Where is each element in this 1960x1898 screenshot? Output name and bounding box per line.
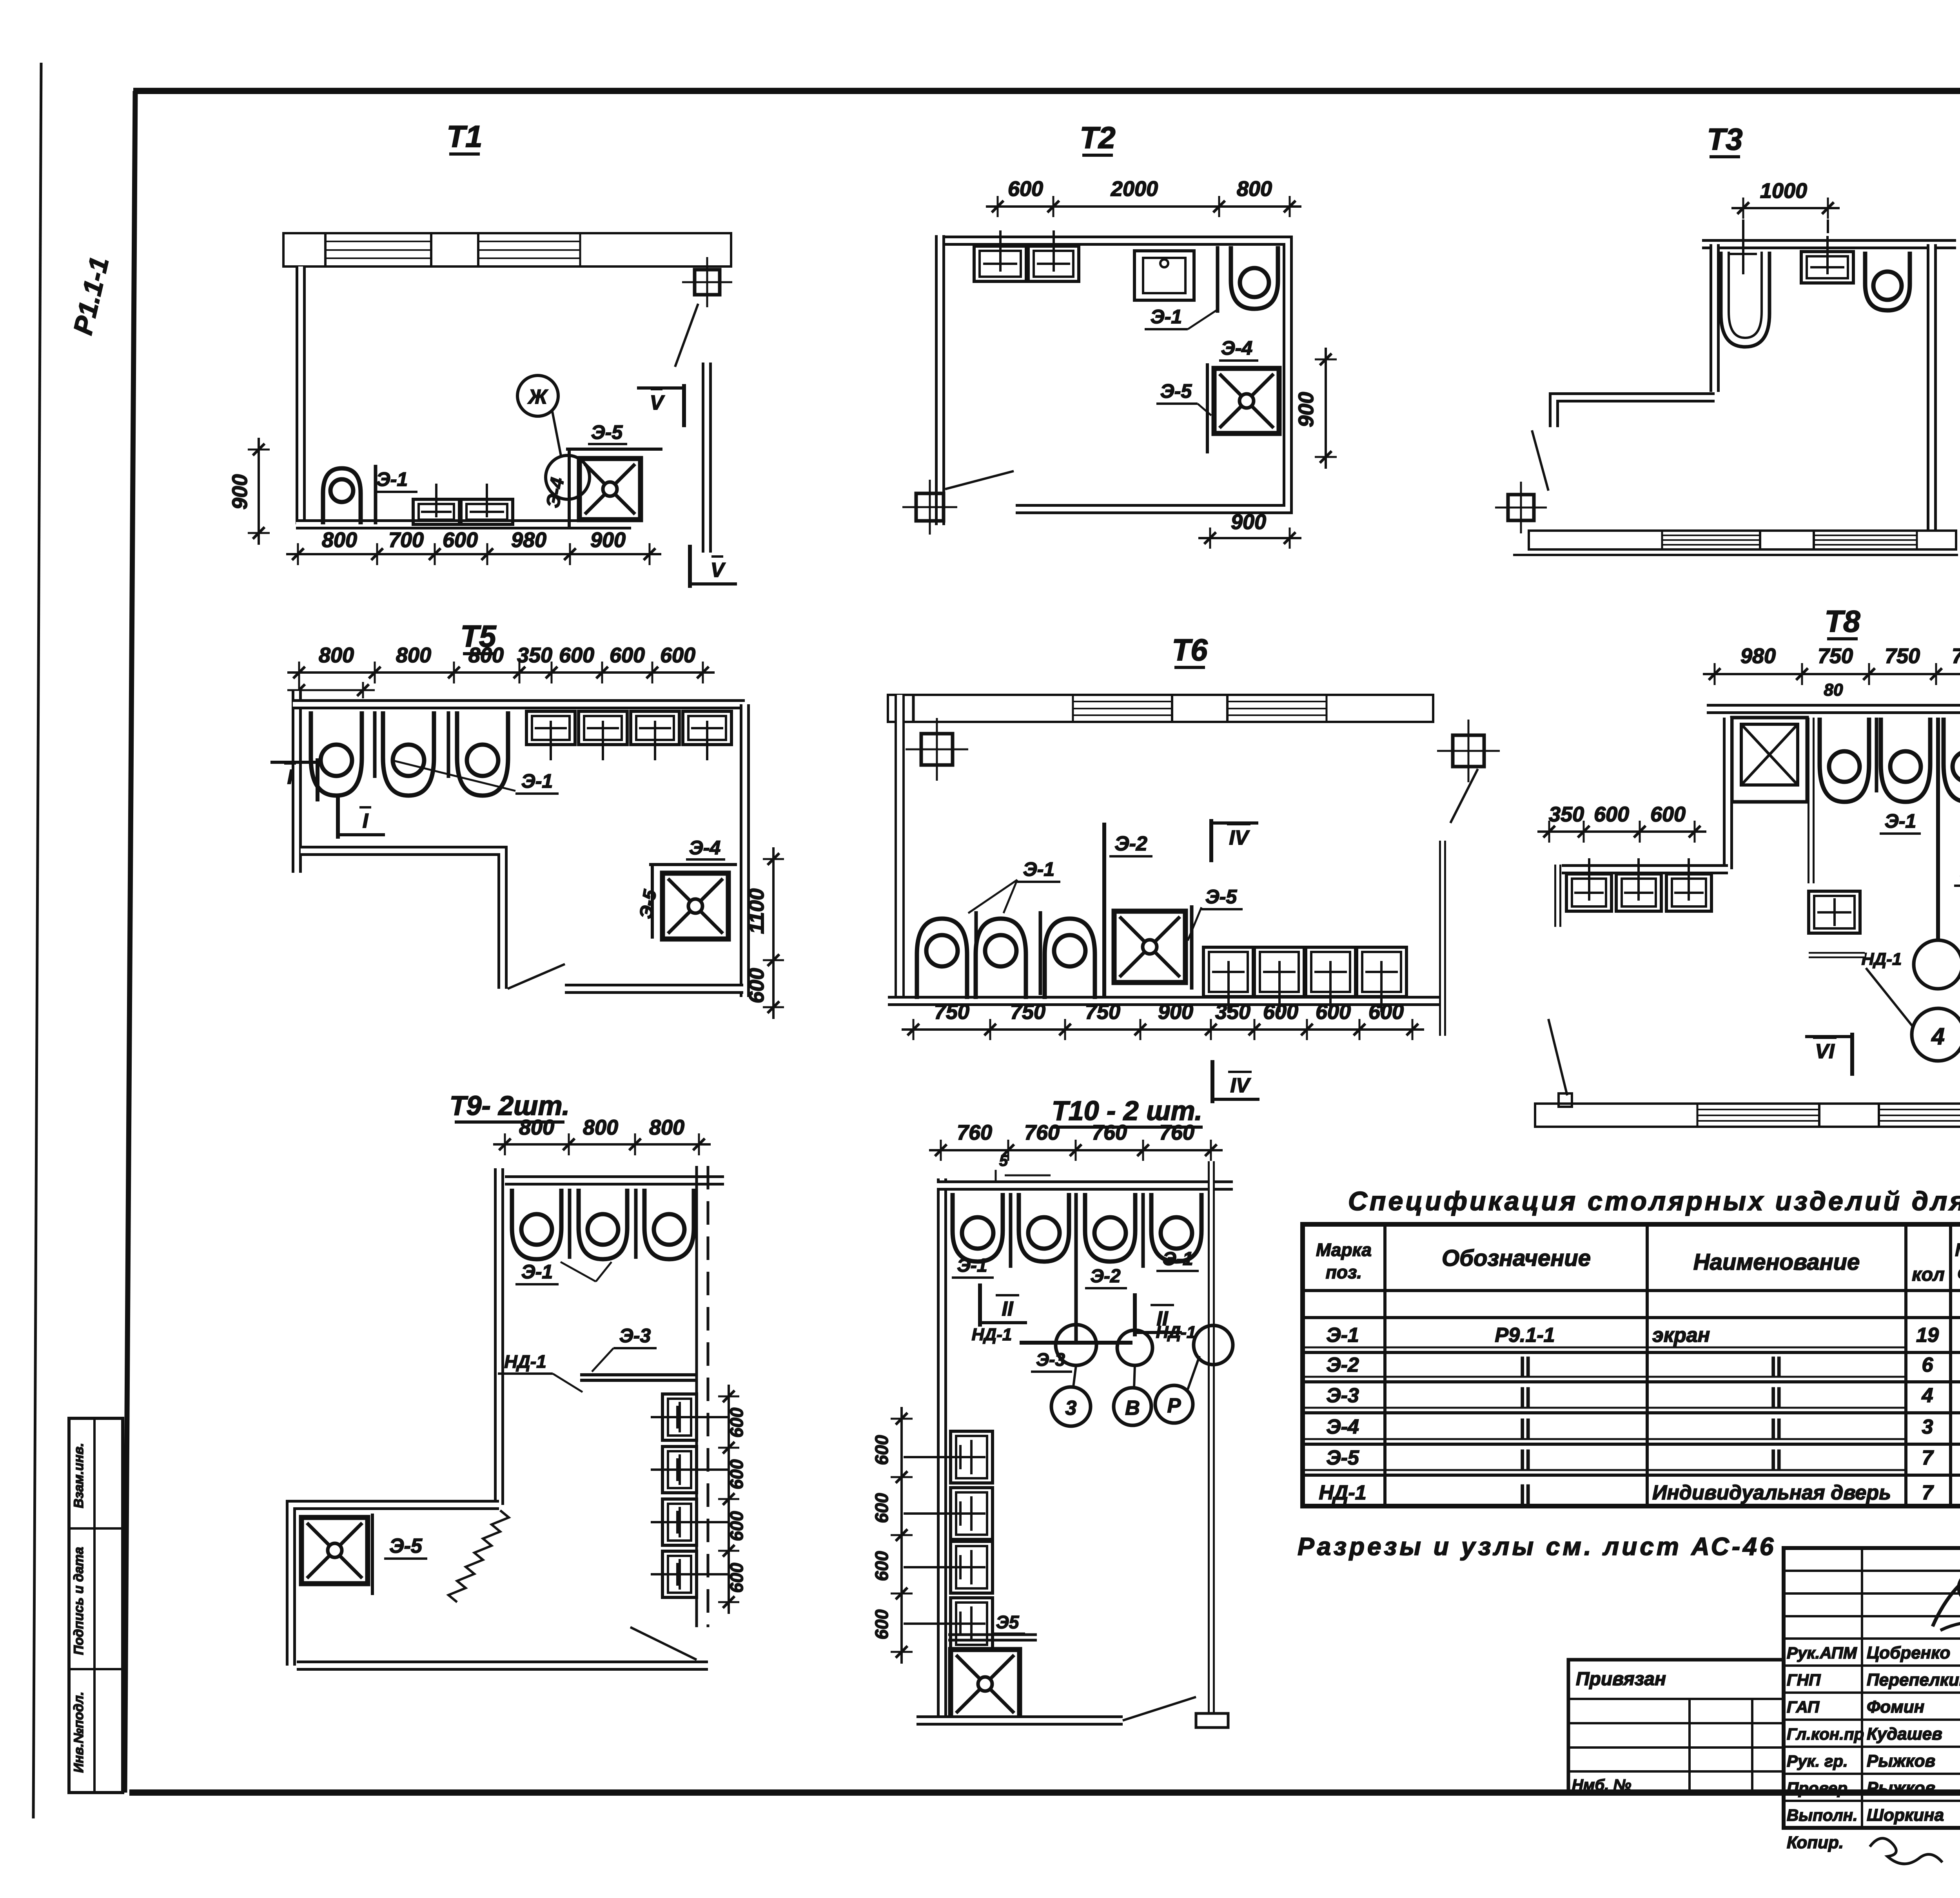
svg-text:4: 4 [1922,1384,1933,1407]
svg-text:Рук. гр.: Рук. гр. [1787,1752,1848,1770]
svg-text:800: 800 [519,1116,554,1139]
svg-text:Э-5: Э-5 [1326,1447,1359,1469]
svg-text:Э-1: Э-1 [521,770,553,792]
svg-text:800: 800 [319,644,354,667]
svg-text:кол: кол [1912,1264,1945,1285]
svg-text:350: 350 [1549,803,1584,826]
svg-text:600: 600 [1316,1000,1351,1024]
svg-text:Э5: Э5 [996,1612,1020,1632]
svg-text:Масса: Масса [1955,1240,1960,1260]
svg-text:800: 800 [1237,177,1272,201]
svg-text:600: 600 [871,1609,892,1639]
svg-text:600: 600 [871,1435,892,1465]
svg-text:600: 600 [871,1551,892,1581]
svg-text:600: 600 [1650,803,1686,826]
svg-text:7: 7 [1922,1481,1934,1504]
svg-text:IV: IV [1230,1074,1251,1097]
svg-text:ед, кг: ед, кг [1958,1262,1960,1282]
svg-text:350: 350 [517,644,552,667]
svg-text:750: 750 [1085,1000,1120,1024]
svg-text:600: 600 [1008,177,1043,201]
svg-text:600: 600 [871,1493,892,1523]
svg-text:800: 800 [649,1116,684,1139]
svg-text:800: 800 [468,644,504,667]
svg-text:3: 3 [1065,1397,1077,1419]
svg-text:600: 600 [726,1563,747,1593]
svg-text:800: 800 [322,528,357,552]
svg-text:Э-1: Э-1 [1326,1324,1359,1347]
svg-text:760: 760 [1092,1121,1127,1144]
svg-text:600: 600 [559,644,594,667]
svg-text:Кудашев: Кудашев [1867,1724,1942,1744]
svg-text:900: 900 [1231,510,1266,534]
svg-text:Взам.инв.: Взам.инв. [71,1443,86,1508]
svg-text:350: 350 [1215,1000,1250,1024]
svg-text:||: || [1770,1384,1781,1407]
svg-text:Э-5: Э-5 [591,421,623,443]
svg-text:Э-4: Э-4 [1326,1416,1359,1438]
svg-text:Э-1: Э-1 [1163,1249,1193,1269]
svg-text:80: 80 [1824,680,1843,700]
svg-text:1000: 1000 [1760,179,1807,203]
svg-text:700: 700 [388,528,424,552]
svg-text:600: 600 [660,644,695,667]
svg-text:НД-1: НД-1 [1156,1323,1196,1342]
svg-text:760: 760 [1159,1121,1194,1144]
svg-text:II: II [1002,1298,1014,1320]
svg-text:Э-4: Э-4 [689,837,720,859]
svg-text:Цобренко: Цобренко [1867,1643,1950,1662]
svg-text:4: 4 [1931,1023,1944,1050]
svg-text:Э-1: Э-1 [1151,306,1182,328]
svg-text:1100: 1100 [745,888,768,934]
svg-text:Э-1: Э-1 [1885,810,1916,832]
svg-text:Р9.1-1: Р9.1-1 [1495,1324,1555,1347]
svg-text:||: || [1519,1416,1530,1438]
svg-text:||: || [1770,1416,1781,1438]
svg-text:V: V [650,392,665,414]
svg-text:Гл.кон.пр: Гл.кон.пр [1787,1725,1864,1743]
svg-text:19: 19 [1916,1324,1939,1347]
svg-text:||: || [1519,1481,1530,1504]
svg-text:НД-1: НД-1 [972,1325,1012,1344]
svg-text:||: || [1519,1354,1530,1376]
svg-text:900: 900 [1294,392,1318,427]
svg-text:Т6: Т6 [1172,633,1208,667]
svg-text:Т2: Т2 [1080,120,1115,155]
svg-text:800: 800 [396,644,431,667]
svg-text:Рыжков: Рыжков [1867,1751,1935,1771]
svg-text:900: 900 [590,528,626,552]
svg-text:экран: экран [1652,1324,1710,1347]
svg-text:Э-1: Э-1 [376,468,408,490]
svg-text:В: В [1125,1397,1140,1419]
svg-text:750: 750 [934,1000,969,1024]
svg-text:Ж: Ж [527,386,548,408]
svg-text:Т8: Т8 [1824,604,1860,638]
svg-text:Шоркина: Шоркина [1867,1806,1944,1825]
svg-text:VI: VI [1815,1040,1835,1063]
svg-text:Э-5: Э-5 [1205,886,1238,908]
svg-text:Перепелкин: Перепелкин [1867,1670,1960,1690]
svg-text:Рыжков: Рыжков [1867,1778,1935,1798]
svg-text:||: || [1770,1354,1781,1376]
svg-text:ГАП: ГАП [1787,1698,1820,1716]
svg-text:ГНП: ГНП [1787,1671,1821,1689]
svg-text:Провер.: Провер. [1787,1779,1852,1797]
svg-text:Р: Р [1167,1394,1181,1417]
svg-text:Рук.АПМ: Рук.АПМ [1787,1644,1857,1662]
svg-text:750: 750 [1818,644,1853,668]
svg-text:Э-2: Э-2 [1090,1266,1120,1287]
svg-text:900: 900 [1158,1000,1193,1024]
svg-text:Т1: Т1 [446,119,482,154]
svg-text:V: V [711,559,726,582]
svg-text:600: 600 [726,1459,747,1489]
svg-text:Выполн.: Выполн. [1787,1806,1858,1824]
svg-text:980: 980 [1740,644,1776,668]
svg-text:Э-5: Э-5 [1160,380,1192,402]
svg-text:Марка: Марка [1316,1240,1372,1260]
svg-text:НД-1: НД-1 [1862,950,1902,969]
svg-text:НД-1: НД-1 [1319,1481,1366,1504]
svg-text:Э-1: Э-1 [957,1255,987,1276]
svg-text:600: 600 [1263,1000,1298,1024]
svg-text:800: 800 [583,1116,618,1139]
svg-text:7: 7 [1922,1447,1934,1469]
svg-text:600: 600 [726,1511,747,1541]
svg-text:Подпись и дата: Подпись и дата [71,1547,86,1655]
svg-text:Разрезы и узлы см. лист А: Разрезы и узлы см. лист АС-46 [1298,1532,1776,1561]
svg-text:Э-3: Э-3 [619,1325,651,1347]
svg-text:600: 600 [1594,803,1629,826]
svg-text:поз.: поз. [1326,1262,1362,1282]
svg-text:Нмб. №: Нмб. № [1572,1777,1631,1794]
svg-text:600: 600 [1368,1000,1404,1024]
svg-text:750: 750 [1952,644,1960,668]
svg-text:Т3: Т3 [1707,122,1742,156]
svg-text:||: || [1519,1384,1530,1407]
svg-text:980: 980 [511,528,546,552]
svg-text:900: 900 [228,474,252,509]
svg-text:Э-4: Э-4 [1221,337,1252,359]
svg-text:IV: IV [1229,827,1250,849]
svg-text:Э-1: Э-1 [1023,858,1054,880]
svg-text:||: || [1519,1447,1530,1469]
svg-text:Индивидуальная дверь: Индивидуальная дверь [1652,1481,1891,1504]
svg-text:600: 600 [443,528,478,552]
svg-text:760: 760 [1024,1121,1060,1144]
svg-text:Привязан: Привязан [1576,1669,1666,1690]
svg-text:Э-1: Э-1 [521,1261,553,1283]
svg-text:5: 5 [999,1152,1008,1169]
svg-text:Э-3: Э-3 [1036,1349,1065,1370]
svg-text:Инв.№подл.: Инв.№подл. [71,1691,86,1773]
svg-text:Э-2: Э-2 [1114,832,1147,855]
svg-text:Обозначение: Обозначение [1442,1245,1591,1271]
svg-text:Э-3: Э-3 [1326,1384,1359,1407]
svg-text:НД-1: НД-1 [504,1351,546,1372]
svg-text:||: || [1770,1447,1781,1469]
svg-text:Копир.: Копир. [1787,1833,1844,1852]
svg-text:Наименование: Наименование [1693,1249,1860,1275]
svg-text:600: 600 [726,1407,747,1438]
svg-text:Спецификация столярных изде: Спецификация столярных изделий для сануз… [1348,1186,1960,1216]
svg-text:Э-5: Э-5 [389,1535,423,1557]
svg-text:750: 750 [1885,644,1920,668]
svg-text:600: 600 [610,644,645,667]
svg-text:6: 6 [1922,1354,1934,1376]
svg-text:I: I [287,766,294,789]
svg-text:600: 600 [745,968,768,1003]
svg-text:Фомин: Фомин [1867,1697,1924,1717]
svg-text:2000: 2000 [1111,177,1158,201]
svg-text:3: 3 [1922,1416,1933,1438]
svg-text:Э-2: Э-2 [1326,1354,1359,1376]
svg-text:I: I [363,810,369,832]
svg-text:760: 760 [957,1121,992,1144]
svg-text:750: 750 [1010,1000,1045,1024]
